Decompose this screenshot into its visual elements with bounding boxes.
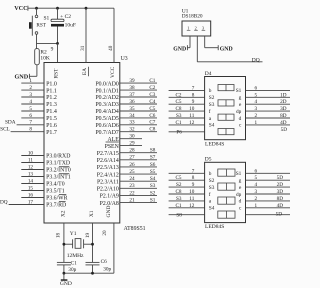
svg-text:10: 10 — [189, 106, 195, 112]
svg-text:P3.1/TXD: P3.1/TXD — [46, 161, 70, 167]
svg-text:27: 27 — [129, 155, 135, 161]
svg-text:C1: C1 — [71, 261, 78, 267]
svg-text:P2.7/A15: P2.7/A15 — [97, 151, 119, 157]
pin ALE (30) — [120, 138, 142, 140]
pin XTAL1 (19) — [92, 223, 94, 262]
pin D4 right row 5 — [246, 117, 291, 119]
svg-text:30: 30 — [129, 134, 135, 140]
svg-text:24: 24 — [129, 176, 135, 182]
svg-text:5D: 5D — [281, 127, 288, 133]
pin P1.3 (4) — [21, 103, 44, 105]
svg-text:c: c — [239, 123, 242, 129]
pin D5 right row 1 — [246, 172, 291, 174]
svg-text:EA: EA — [82, 68, 88, 75]
resistor R2 — [35, 49, 40, 65]
svg-text:P1.0: P1.0 — [46, 81, 57, 87]
svg-text:S4: S4 — [209, 123, 215, 129]
pin D5 left row 4 — [169, 193, 205, 195]
svg-text:GND: GND — [220, 46, 233, 52]
pin P2.4/A12 (25) net S5 — [120, 173, 157, 175]
svg-text:36: 36 — [129, 99, 135, 105]
svg-text:2: 2 — [255, 113, 258, 119]
svg-text:X2: X2 — [60, 210, 66, 217]
svg-text:S2: S2 — [176, 182, 182, 188]
svg-text:8: 8 — [192, 175, 195, 181]
svg-text:P1.3: P1.3 — [46, 102, 57, 108]
svg-text:13: 13 — [28, 171, 34, 177]
svg-text:32: 32 — [129, 127, 135, 133]
pin P0.7/AD7 (32) net C8 — [120, 131, 157, 133]
pin P1.4 (5) — [21, 110, 44, 112]
pin P0.3/AD3 (36) net C4 — [120, 103, 157, 105]
svg-text:39: 39 — [129, 78, 135, 84]
svg-text:S3: S3 — [209, 102, 215, 108]
svg-text:P6: P6 — [176, 129, 182, 135]
pin P2.5/A13 (26) net S6 — [120, 166, 157, 168]
pin GND (20) — [113, 223, 115, 273]
svg-text:S3: S3 — [176, 113, 182, 119]
svg-text:8D: 8D — [280, 113, 287, 119]
svg-text:5: 5 — [29, 106, 32, 112]
svg-text:VCC: VCC — [110, 66, 116, 78]
svg-text:8: 8 — [192, 92, 195, 98]
svg-text:S3: S3 — [209, 185, 215, 191]
svg-text:20: 20 — [102, 230, 108, 236]
pin P2.6/A14 (27) net S7 — [120, 159, 157, 161]
pin P3.5/T1 (15) — [21, 190, 44, 192]
wire VCC to S1 top — [36, 8, 38, 15]
pin P2.1/A9 (22) net S2 — [120, 194, 157, 196]
svg-text:7: 7 — [29, 120, 32, 126]
svg-text:P3.3/INT1: P3.3/INT1 — [46, 175, 71, 181]
pin P1.5 (6) — [21, 117, 44, 119]
svg-text:S1: S1 — [236, 171, 242, 177]
pin PSEN (29) — [120, 145, 142, 147]
svg-text:14: 14 — [28, 178, 34, 184]
svg-text:b: b — [209, 171, 212, 177]
svg-text:VCC: VCC — [14, 5, 27, 12]
svg-text:GND: GND — [106, 206, 112, 218]
node junction C1/rail — [63, 272, 66, 275]
svg-text:SDA: SDA — [5, 120, 16, 126]
svg-text:P0.0/AD0: P0.0/AD0 — [95, 81, 118, 87]
svg-text:2: 2 — [29, 85, 32, 91]
node junction VCC/S1 — [35, 7, 38, 10]
pin D5 left row 7 — [169, 214, 205, 216]
wire S1 bottom to node — [36, 34, 38, 48]
ground symbol GND — [63, 273, 65, 280]
capacitor C6 — [86, 261, 100, 263]
svg-text:RST: RST — [36, 23, 46, 29]
sensor U1 DS18B20 box — [182, 21, 211, 36]
svg-text:C2: C2 — [175, 92, 181, 98]
svg-text:AT89S51: AT89S51 — [124, 226, 146, 232]
svg-text:11: 11 — [28, 157, 33, 163]
svg-text:3: 3 — [29, 92, 32, 98]
svg-text:P2.6/A14: P2.6/A14 — [97, 158, 119, 164]
svg-text:35: 35 — [129, 106, 135, 112]
svg-text:P3.7/RD: P3.7/RD — [46, 203, 66, 209]
wire RST node to pin 9 — [57, 43, 59, 62]
svg-text:8: 8 — [29, 127, 32, 133]
pin D4 left row 7 — [169, 131, 205, 133]
op IC U3 AT89S51 box — [44, 63, 120, 224]
pin D5 right row 6 — [246, 207, 291, 209]
svg-text:10: 10 — [189, 189, 195, 195]
svg-text:a: a — [209, 116, 212, 122]
svg-text:PSEN: PSEN — [105, 144, 120, 150]
svg-text:e: e — [239, 102, 242, 108]
svg-text:S2: S2 — [209, 178, 215, 184]
svg-text:16: 16 — [28, 192, 34, 198]
svg-text:S1: S1 — [44, 16, 50, 22]
digit cell 2 of D5 — [218, 183, 235, 190]
pin P0.5/AD5 (34) net C6 — [120, 117, 157, 119]
pin P0.1/AD1 (38) net C2 — [120, 89, 157, 91]
digit cell 4 of D4 — [218, 129, 234, 135]
svg-text:12MHz: 12MHz — [67, 253, 84, 259]
svg-text:22: 22 — [129, 190, 135, 196]
svg-text:C8: C8 — [175, 106, 181, 112]
pin D4 right row 1 — [246, 89, 291, 91]
overline WR — [59, 194, 66, 196]
svg-text:30p: 30p — [68, 267, 76, 273]
wire crystal left — [64, 243, 73, 245]
svg-text:2D: 2D — [280, 99, 287, 105]
pin P2.3/A11 (24) net S4 — [120, 180, 157, 182]
pin D4 right row 4 — [246, 110, 291, 112]
svg-text:c: c — [239, 206, 242, 212]
svg-text:30p: 30p — [103, 266, 111, 272]
svg-text:12: 12 — [189, 120, 195, 126]
pin D5 right row 3 — [246, 186, 291, 188]
svg-text:1D: 1D — [280, 92, 287, 98]
svg-text:S8: S8 — [176, 212, 182, 218]
svg-text:C6: C6 — [101, 259, 108, 265]
svg-text:C3: C3 — [149, 92, 155, 98]
pin D5 left row 2 — [169, 179, 205, 181]
svg-text:5D: 5D — [277, 175, 284, 181]
svg-text:S2: S2 — [150, 190, 156, 196]
svg-text:DQ: DQ — [252, 57, 260, 63]
svg-text:11: 11 — [189, 113, 194, 119]
pin P2.7/A15 (28) net S8 — [120, 152, 157, 154]
pin EA/VPP (31) — [85, 8, 87, 62]
pin D4 left row 4 — [169, 110, 205, 112]
svg-text:4D: 4D — [280, 120, 287, 126]
svg-text:dp: dp — [236, 192, 242, 198]
svg-text:S5: S5 — [150, 169, 156, 175]
svg-text:4: 4 — [29, 99, 32, 105]
svg-text:P1.7: P1.7 — [46, 130, 57, 136]
pin D5 left row 3 — [169, 186, 205, 188]
svg-text:SCL: SCL — [0, 127, 10, 133]
svg-text:S3: S3 — [176, 196, 182, 202]
svg-text:9: 9 — [192, 182, 195, 188]
svg-text:C1: C1 — [175, 203, 181, 209]
svg-text:C5: C5 — [175, 175, 181, 181]
svg-text:25: 25 — [129, 169, 135, 175]
svg-text:P2.1/A9: P2.1/A9 — [100, 194, 119, 200]
svg-text:33: 33 — [129, 120, 135, 126]
svg-text:23: 23 — [129, 183, 135, 189]
power port GND right — [217, 45, 219, 50]
svg-text:40: 40 — [108, 45, 114, 51]
svg-text:S1: S1 — [236, 88, 242, 94]
wire VCC rail — [28, 7, 114, 9]
net label D5 right row 7 — [246, 214, 291, 216]
svg-text:C2: C2 — [65, 14, 72, 20]
svg-text:DQ: DQ — [0, 199, 8, 205]
pin P2.0/A8 (21) net S1 — [120, 202, 157, 204]
svg-text:P2.5/A13: P2.5/A13 — [97, 165, 119, 171]
pin D5 right row 4 — [246, 193, 291, 195]
digit cell 1 of D5 — [218, 169, 235, 176]
svg-text:DS18B20: DS18B20 — [182, 14, 203, 20]
node junction XTAL2/Y1 — [63, 243, 66, 246]
svg-text:7: 7 — [192, 85, 195, 91]
svg-text:19: 19 — [85, 233, 91, 239]
svg-text:GND: GND — [60, 281, 72, 287]
pin D4 left row 1 — [169, 89, 205, 91]
svg-text:6: 6 — [255, 168, 258, 174]
pin P3.4/T0 (14) — [21, 183, 44, 185]
svg-text:12: 12 — [189, 203, 195, 209]
svg-text:dp: dp — [236, 109, 242, 115]
svg-text:1: 1 — [29, 78, 32, 84]
pin P0.2/AD2 (37) net C3 — [120, 96, 157, 98]
pin D4 left row 3 — [169, 103, 205, 105]
svg-text:P3.6/WR: P3.6/WR — [46, 196, 68, 202]
svg-text:a: a — [209, 199, 212, 205]
overline INT0 — [59, 166, 69, 168]
svg-text:S2: S2 — [209, 95, 215, 101]
svg-text:6: 6 — [29, 113, 32, 119]
svg-text:X1: X1 — [89, 210, 95, 217]
overline INT1 — [59, 173, 69, 175]
svg-text:C5: C5 — [149, 106, 155, 112]
switch S1 RST pushbutton — [35, 15, 38, 18]
svg-text:P1.5: P1.5 — [46, 116, 57, 122]
svg-text:f: f — [209, 108, 211, 115]
svg-text:6: 6 — [255, 85, 258, 91]
pin D4 right row 6 — [246, 124, 291, 126]
svg-text:U3: U3 — [121, 56, 128, 62]
svg-text:P3.5/T1: P3.5/T1 — [46, 189, 65, 195]
svg-text:11: 11 — [189, 196, 194, 202]
svg-text:37: 37 — [129, 92, 135, 98]
svg-text:P1.2: P1.2 — [46, 95, 57, 101]
svg-text:10: 10 — [28, 150, 34, 156]
svg-text:9: 9 — [51, 46, 54, 52]
node junction XTAL1/Y1 — [91, 243, 94, 246]
svg-text:5: 5 — [255, 92, 258, 98]
pin D5 right row 2 — [246, 179, 291, 181]
capacitor C2 — [57, 8, 59, 19]
wire pin1 to GND — [189, 36, 191, 48]
svg-text:1: 1 — [255, 203, 258, 209]
digit cell 1 of D4 — [218, 85, 234, 91]
svg-text:S3: S3 — [150, 183, 156, 189]
svg-text:2D: 2D — [277, 182, 284, 188]
overline RD — [59, 201, 66, 203]
digit cell 3 of D5 — [218, 197, 235, 204]
svg-text:31: 31 — [80, 45, 86, 51]
svg-text:+: + — [60, 14, 63, 20]
svg-text:9: 9 — [192, 99, 195, 105]
svg-text:S4: S4 — [150, 176, 156, 182]
svg-text:3D: 3D — [277, 189, 284, 195]
svg-text:P0.6/AD6: P0.6/AD6 — [95, 123, 118, 129]
svg-text:S6: S6 — [150, 162, 156, 168]
svg-text:7: 7 — [192, 168, 195, 174]
pin P1.1 (2) — [21, 89, 44, 91]
svg-text:C1: C1 — [149, 78, 155, 84]
svg-text:S4: S4 — [209, 206, 215, 212]
svg-text:GND: GND — [173, 46, 186, 52]
pin P1.2 (3) — [21, 96, 44, 98]
wire crystal right — [84, 243, 93, 245]
digit cell 3 of D4 — [218, 114, 234, 120]
pin D4 left row 6 — [169, 124, 205, 126]
svg-text:10uF: 10uF — [65, 22, 76, 28]
svg-text:S1: S1 — [150, 198, 156, 204]
pin D4 right row 3 — [246, 103, 291, 105]
svg-text:P0.3/AD3: P0.3/AD3 — [95, 102, 118, 108]
digit cell 2 of D4 — [218, 100, 234, 106]
svg-text:P1.1: P1.1 — [46, 88, 57, 94]
svg-text:P2.4/A12: P2.4/A12 — [97, 172, 119, 178]
svg-text:18: 18 — [55, 233, 61, 239]
svg-text:S8: S8 — [150, 148, 156, 154]
svg-text:C4: C4 — [149, 99, 155, 105]
svg-text:21: 21 — [129, 198, 135, 204]
pin P3.1/TXD (11) — [21, 162, 44, 164]
svg-text:38: 38 — [129, 85, 135, 91]
svg-text:10K: 10K — [40, 55, 50, 61]
pin P3.0/RXD (10) — [21, 155, 44, 157]
pin P2.2/A10 (23) net S3 — [120, 187, 157, 189]
pin D5 right row 5 — [246, 200, 291, 202]
svg-text:P0.4/AD4: P0.4/AD4 — [95, 109, 118, 115]
svg-text:C2: C2 — [149, 85, 155, 91]
svg-text:4: 4 — [255, 99, 258, 105]
wire R2 to GND — [36, 65, 38, 77]
svg-text:RST: RST — [53, 68, 59, 79]
wire pin3 to GND — [204, 36, 206, 48]
svg-text:C6: C6 — [149, 113, 155, 119]
svg-text:S7: S7 — [150, 155, 156, 161]
svg-text:g: g — [239, 178, 242, 184]
svg-text:P3.0/RXD: P3.0/RXD — [46, 154, 70, 160]
node junction VCC/C2 — [56, 7, 59, 10]
svg-text:5: 5 — [255, 175, 258, 181]
svg-text:29: 29 — [129, 141, 135, 147]
svg-text:15: 15 — [28, 185, 34, 191]
wire DQ net — [196, 36, 198, 62]
svg-text:4D: 4D — [277, 203, 284, 209]
svg-text:P2.3/A11: P2.3/A11 — [97, 179, 119, 185]
wire S1/R2 node to C2 node — [37, 42, 58, 44]
svg-text:C1: C1 — [175, 120, 181, 126]
svg-text:f: f — [209, 191, 211, 198]
digit cell 4 of D5 — [218, 211, 235, 218]
node junction RST — [56, 42, 59, 45]
svg-text:P0.7/AD7: P0.7/AD7 — [95, 130, 118, 136]
svg-text:C5: C5 — [175, 99, 181, 105]
svg-text:3: 3 — [255, 189, 258, 195]
pin D4 left row 5 — [169, 117, 205, 119]
svg-text:28: 28 — [129, 148, 135, 154]
svg-text:LED84S: LED84S — [205, 224, 224, 230]
svg-text:26: 26 — [129, 162, 135, 168]
capacitor C1 — [57, 261, 71, 263]
pin P3.6/WR (16) — [21, 197, 44, 199]
svg-text:12: 12 — [28, 164, 34, 170]
svg-text:P0.1/AD1: P0.1/AD1 — [95, 88, 118, 94]
svg-text:1: 1 — [255, 120, 258, 126]
svg-text:8D: 8D — [277, 196, 284, 202]
svg-text:3D: 3D — [280, 106, 287, 112]
wire ground rail — [64, 272, 114, 274]
pin P3.3/INT1 (13) — [21, 176, 44, 178]
pin P3.2/INT0 (12) — [21, 169, 44, 171]
svg-text:P0.2/AD2: P0.2/AD2 — [95, 95, 118, 101]
svg-text:3: 3 — [255, 106, 258, 112]
pin P0.0/AD0 (39) net C1 — [120, 82, 157, 84]
svg-text:P2.2/A10: P2.2/A10 — [97, 187, 119, 193]
svg-text:GND: GND — [14, 74, 28, 81]
svg-text:17: 17 — [28, 199, 34, 205]
pin D5 left row 6 — [169, 207, 205, 209]
svg-text:e: e — [239, 185, 242, 191]
svg-text:P3.4/T0: P3.4/T0 — [46, 182, 65, 188]
svg-text:d: d — [239, 116, 242, 122]
svg-text:P1.6: P1.6 — [46, 123, 57, 129]
svg-text:C8: C8 — [149, 127, 155, 133]
pin D5 left row 1 — [169, 172, 205, 174]
svg-text:g: g — [239, 95, 242, 101]
svg-text:P0.5/AD5: P0.5/AD5 — [95, 116, 118, 122]
pin D5 left row 5 — [169, 200, 205, 202]
svg-text:P1.4: P1.4 — [46, 109, 57, 115]
pin VCC (40) — [113, 8, 115, 62]
svg-text:d: d — [239, 199, 242, 205]
svg-text:b: b — [209, 88, 212, 94]
svg-text:P3.2/INT0: P3.2/INT0 — [46, 168, 71, 174]
pin D4 right row 2 — [246, 96, 291, 98]
svg-text:34: 34 — [129, 113, 135, 119]
svg-text:Y1: Y1 — [70, 231, 77, 237]
svg-text:C8: C8 — [175, 189, 181, 195]
pin P1.0 (1) — [21, 82, 44, 84]
pin XTAL2 (18) — [63, 223, 65, 262]
svg-text:2: 2 — [255, 196, 258, 202]
node junction C6/rail — [91, 272, 94, 275]
svg-text:LED84S: LED84S — [205, 141, 224, 147]
svg-text:C7: C7 — [149, 120, 155, 126]
svg-text:4: 4 — [255, 182, 258, 188]
pin P0.4/AD4 (35) net C5 — [120, 110, 157, 112]
pin P0.6/AD6 (33) net C7 — [120, 124, 157, 126]
pin D4 left row 2 — [169, 96, 205, 98]
svg-text:5D: 5D — [276, 212, 283, 218]
node junction VCC/EA — [85, 7, 88, 10]
